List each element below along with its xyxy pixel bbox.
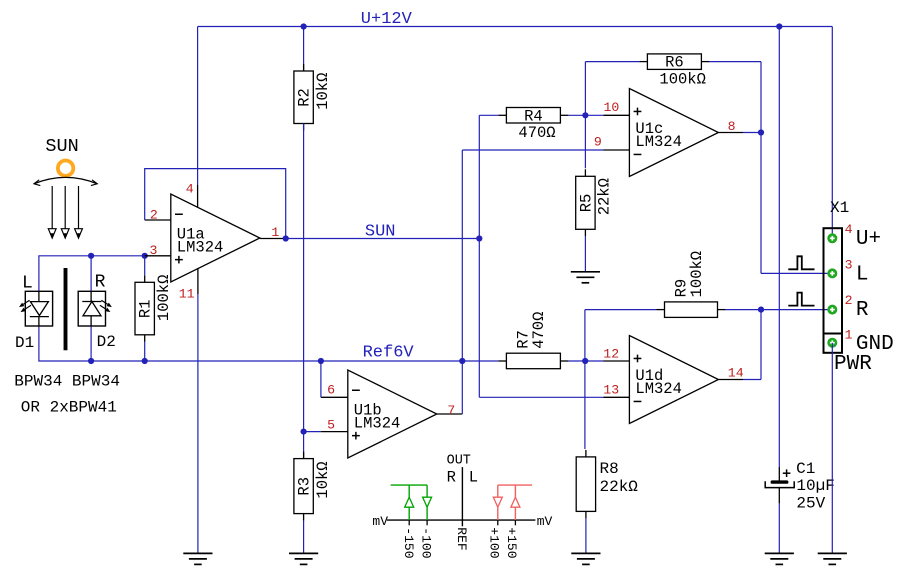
wire X1 pin 1 to ground	[831, 343, 833, 554]
graph tick label REF	[454, 527, 469, 550]
svg-text:1: 1	[845, 328, 853, 343]
node junction U1c pin 10	[582, 112, 588, 118]
node junction C1 branch on U+12V rail	[776, 23, 782, 29]
node junction D2 bottom	[88, 358, 94, 364]
graph label mV left	[372, 514, 388, 529]
wire U+12V top rail	[198, 26, 833, 28]
svg-text:R5: R5	[577, 194, 595, 213]
resistor R7 470	[498, 312, 568, 369]
svg-text:U+: U+	[856, 228, 881, 251]
wire R8 bottom to ground	[585, 518, 587, 553]
pin 2 label	[150, 208, 158, 223]
pin 6 label	[327, 383, 335, 398]
svg-text:SUN: SUN	[365, 223, 396, 242]
graph tick label -100	[419, 527, 434, 558]
graph label OUT	[447, 454, 471, 469]
pin 1 label X1	[845, 328, 853, 343]
pin 5 label	[327, 417, 335, 432]
svg-text:OR 2xBPW41: OR 2xBPW41	[21, 399, 117, 417]
label R pin2	[856, 299, 869, 322]
graph green L trace	[391, 485, 427, 520]
wire U1b pin 6 to Ref6V	[320, 361, 322, 397]
svg-text:2: 2	[150, 208, 158, 223]
wire U+12V to C1	[778, 27, 780, 468]
node junction SUN to R4/pin13 branch	[476, 235, 482, 241]
wire U+12V to X1 pin 4	[831, 27, 833, 239]
pin 10 label	[604, 100, 620, 115]
svg-text:+150: +150	[504, 527, 519, 558]
wire U+12V to U1a pin 4	[197, 27, 199, 208]
node junction U1a output	[283, 235, 289, 241]
svg-text:L: L	[22, 273, 33, 293]
svg-text:470Ω: 470Ω	[530, 312, 548, 349]
pin 3 label X1	[845, 257, 853, 272]
pulse symbol at L	[788, 256, 814, 269]
svg-text:Ref6V: Ref6V	[363, 344, 415, 363]
separator board between D1 and D2	[64, 268, 68, 350]
svg-text:22kΩ: 22kΩ	[596, 178, 614, 215]
svg-text:1: 1	[271, 225, 279, 240]
svg-text:BPW34 BPW34: BPW34 BPW34	[14, 373, 120, 391]
graph red down arrow	[493, 497, 502, 507]
pad X1 pin 1	[827, 338, 837, 348]
svg-text:R: R	[856, 299, 869, 322]
graph red up arrow	[511, 497, 520, 507]
pin 1 stub U1a output	[260, 238, 286, 240]
pin 12 stub U1d	[604, 360, 630, 362]
op-amp U1d	[629, 336, 718, 424]
node junction U1b out on Ref6V	[459, 358, 465, 364]
connector X1 box	[824, 228, 843, 353]
pad X1 pin 3	[827, 268, 837, 278]
graph green down arrow	[423, 497, 432, 507]
svg-text:X1: X1	[830, 199, 849, 217]
label 22k value R8	[600, 478, 639, 496]
sun symbol text	[45, 136, 78, 157]
resistor R3 10k	[294, 452, 332, 521]
label R above D2	[95, 272, 106, 292]
node junction pin5/R2/R3	[301, 429, 307, 435]
wire R7 right to U1d pin 12	[568, 360, 603, 362]
svg-text:5: 5	[327, 417, 335, 432]
svg-text:REF: REF	[454, 527, 469, 550]
label BPW34 BPW34	[14, 373, 120, 391]
graph red R trace	[498, 485, 532, 520]
node junction U1d pin 12	[582, 358, 588, 364]
wire D2 bottom	[90, 326, 92, 361]
wire to R4 left	[479, 114, 498, 116]
label X1	[830, 199, 849, 217]
resistor R5 22k	[576, 169, 614, 236]
label 10uF	[796, 477, 834, 495]
svg-text:22kΩ: 22kΩ	[600, 478, 639, 496]
wire U1c output to X1 pin 3	[743, 133, 832, 274]
svg-text:10kΩ: 10kΩ	[314, 461, 332, 498]
resistor R9 100k feedback	[657, 251, 726, 318]
svg-text:25V: 25V	[796, 495, 825, 513]
svg-text:10kΩ: 10kΩ	[314, 73, 332, 110]
svg-text:R: R	[95, 272, 106, 292]
pin 4 label X1	[845, 222, 853, 237]
ground at C1	[765, 553, 794, 564]
svg-text:4: 4	[845, 222, 853, 237]
resistor R4 470	[498, 107, 568, 142]
svg-text:L: L	[856, 264, 869, 287]
pin 11 stub U1a	[197, 268, 199, 294]
net label SUN	[365, 223, 396, 242]
label PWR	[834, 353, 872, 376]
wire U1a pin 11 to ground	[197, 294, 199, 553]
graph label R	[447, 468, 456, 486]
photodiode D2 arrows	[100, 300, 112, 312]
svg-text:SUN: SUN	[45, 136, 78, 157]
wire R2 bottom to U1b pin 5 node and R3	[303, 124, 305, 459]
photodiode D1 arrows	[19, 300, 31, 312]
net label Ref6V	[363, 344, 415, 363]
svg-text:100kΩ: 100kΩ	[688, 251, 706, 298]
net label U+12V	[361, 10, 413, 29]
resistor R1 100k	[135, 275, 173, 342]
svg-text:R8: R8	[600, 460, 619, 478]
pin 12 label	[603, 347, 619, 362]
svg-text:D1: D1	[15, 334, 34, 352]
svg-text:3: 3	[845, 257, 853, 272]
node junction R1 bottom	[142, 358, 148, 364]
svg-text:U+12V: U+12V	[361, 10, 413, 29]
resistor R2 10k	[294, 64, 332, 131]
graph label mV right	[537, 514, 553, 529]
graph ticks	[409, 520, 515, 525]
node junction R2 on U+12V rail	[301, 23, 307, 29]
pin 3 stub U1a	[145, 255, 171, 257]
graph horizontal axis	[387, 519, 536, 521]
svg-text:R1: R1	[137, 299, 155, 318]
svg-text:PWR: PWR	[834, 353, 872, 376]
svg-text:13: 13	[603, 383, 619, 398]
pin 5 stub U1b	[321, 431, 348, 433]
pin 14 stub U1d output	[718, 379, 743, 381]
svg-text:7: 7	[447, 403, 455, 418]
wire D1 top to U1a pin 3 line	[39, 256, 145, 291]
ground at U1a pin 11	[183, 553, 212, 564]
svg-text:12: 12	[603, 347, 619, 362]
wire U1c pin 9 horizontal	[462, 149, 603, 151]
graph tick label +150	[504, 527, 519, 558]
label L above D1	[22, 273, 33, 293]
node junction D2 top	[88, 253, 94, 259]
wire R9 right to U1d output node and X1 pin 2	[725, 309, 832, 311]
pin 13 stub U1d	[604, 396, 630, 398]
svg-text:14: 14	[728, 366, 744, 381]
svg-text:L: L	[469, 468, 478, 486]
wire U1a feedback loop	[145, 169, 286, 239]
wire SUN net horizontal	[286, 238, 480, 240]
wire U1d output vertical	[760, 310, 762, 380]
svg-text:-100: -100	[419, 527, 434, 558]
svg-text:LM324: LM324	[177, 238, 224, 256]
svg-text:8: 8	[728, 119, 736, 134]
svg-text:10: 10	[604, 100, 620, 115]
wire R9 left to pin12 node and R8	[585, 310, 657, 449]
pad X1 pin 4	[827, 233, 837, 243]
wire C1 bottom to ground	[778, 503, 780, 553]
label L pin3	[856, 264, 869, 287]
svg-text:11: 11	[179, 286, 195, 301]
svg-text:R4: R4	[524, 107, 543, 125]
svg-text:mV: mV	[537, 514, 553, 529]
wire D2 top	[90, 256, 92, 291]
pin 2 label X1	[845, 293, 853, 308]
svg-text:mV: mV	[372, 514, 388, 529]
svg-text:LM324: LM324	[354, 414, 401, 432]
node junction pin 6 on Ref6V	[318, 358, 324, 364]
label OR 2xBPW41	[21, 399, 117, 417]
svg-text:100kΩ: 100kΩ	[659, 70, 706, 88]
ground at X1 GND	[818, 553, 847, 564]
sun symbol circle	[58, 161, 73, 176]
wire U+12V to R2	[303, 27, 305, 72]
wire R1 bottom	[144, 342, 146, 362]
wire R6 left to pin10 node and R5	[585, 62, 639, 169]
svg-text:-150: -150	[401, 527, 416, 558]
svg-text:R3: R3	[296, 477, 314, 496]
svg-text:9: 9	[594, 135, 602, 150]
svg-text:R: R	[447, 468, 456, 486]
resistor R6 100k feedback	[639, 54, 709, 89]
pin 13 label	[603, 383, 619, 398]
pin 10 stub U1c	[604, 114, 630, 116]
pin 7 label	[447, 403, 455, 418]
svg-text:C1: C1	[796, 460, 815, 478]
svg-text:R6: R6	[665, 54, 684, 72]
svg-text:OUT: OUT	[447, 454, 471, 469]
op-amp U1c	[629, 89, 718, 177]
ground at R5	[571, 272, 600, 283]
pin 3 label	[150, 243, 158, 258]
pin 14 label	[728, 366, 744, 381]
op-amp U1a	[171, 194, 260, 282]
wire SUN branch vertical R4 to U1d pin 13	[478, 115, 480, 397]
svg-text:LM324: LM324	[635, 380, 682, 398]
wire R1 top	[144, 256, 146, 275]
photodiode D1 BPW34	[25, 291, 52, 326]
graph tick label -150	[401, 527, 416, 558]
graph green up arrow	[405, 497, 414, 507]
svg-text:+100: +100	[487, 527, 502, 558]
node junction U1c output	[758, 129, 764, 135]
pin 8 stub U1c output	[718, 132, 743, 134]
graph vertical axis	[461, 467, 463, 526]
photodiode D2 BPW34	[78, 291, 105, 326]
wire R5 bottom to ground	[584, 236, 586, 271]
label U+	[856, 228, 881, 251]
pin 6 stub U1b	[321, 396, 348, 398]
pin 9 stub U1c	[604, 149, 630, 151]
wire U1b output up to Ref6V and U1c pin 9	[461, 150, 463, 414]
pin 1 label	[271, 225, 279, 240]
svg-text:D2: D2	[97, 333, 116, 351]
pin 8 label	[728, 119, 736, 134]
sun rays arrows	[48, 186, 82, 238]
wire D1 bottom to Ref6V line	[39, 326, 499, 361]
svg-text:470Ω: 470Ω	[518, 124, 555, 142]
wire R4 right to U1c pin 10	[568, 114, 603, 116]
svg-text:LM324: LM324	[635, 133, 682, 151]
label D2	[97, 333, 116, 351]
pin 4 label U1a	[186, 182, 194, 197]
pin 2 stub U1a	[145, 219, 171, 221]
wire U1d output stub to node	[743, 379, 761, 381]
node junction R1 top	[142, 253, 148, 259]
label GND	[856, 333, 894, 356]
graph tick label +100	[487, 527, 502, 558]
label D1	[15, 334, 34, 352]
svg-text:6: 6	[327, 383, 335, 398]
op-amp U1b	[348, 370, 437, 458]
pin 9 label	[594, 135, 602, 150]
svg-text:4: 4	[186, 182, 194, 197]
pad X1 pin 2	[827, 305, 837, 315]
svg-text:2: 2	[845, 293, 853, 308]
capacitor C1 10uF	[765, 467, 794, 503]
wire R6 right to U1c output	[709, 62, 761, 133]
ground at R3	[289, 553, 318, 564]
label 25V	[796, 495, 825, 513]
node junction U1d output	[758, 307, 764, 313]
wire node to U1b pin 5	[304, 431, 321, 433]
graph label L	[469, 468, 478, 486]
svg-text:3: 3	[150, 243, 158, 258]
sun swivel arc	[34, 177, 97, 185]
svg-text:10µF: 10µF	[796, 477, 834, 495]
label R8	[600, 460, 619, 478]
wire U1d pin 13 horizontal	[479, 396, 603, 398]
pin 11 label	[179, 286, 195, 301]
resistor R8 22k	[576, 450, 595, 519]
wire R3 bottom to ground	[303, 521, 305, 554]
svg-text:R2: R2	[296, 88, 314, 107]
pulse symbol at R	[788, 293, 814, 306]
pin 7 stub U1b output	[437, 413, 463, 415]
label C1	[796, 460, 815, 478]
ground at R8	[571, 553, 600, 564]
